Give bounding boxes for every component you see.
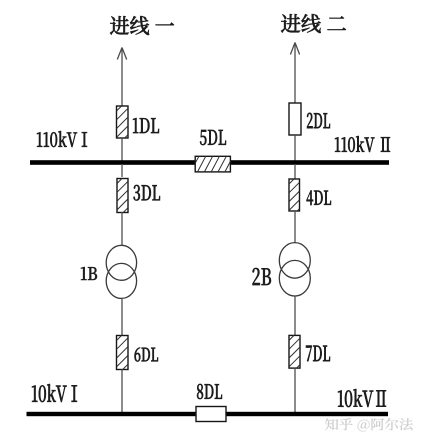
label incoming line 2 进线二: [281, 14, 346, 33]
wire: arrow to 1DL: [121, 48, 123, 107]
busbar 10kV (left segment): [27, 412, 197, 416]
label 10kV bus I: [32, 384, 77, 402]
busbar 110kV (right segment): [230, 160, 389, 165]
wire: 4DL to transformer 2B: [294, 211, 296, 243]
breaker 1DL: [117, 106, 129, 138]
wire: 2B to 7DL: [294, 296, 296, 336]
label 6DL: [135, 347, 159, 361]
breaker 5DL (bus tie): [195, 156, 230, 172]
watermark 知乎 @阿尔法: [325, 418, 413, 432]
label 110kV bus I: [37, 131, 87, 147]
wire: 2DL to 110kV bus II: [294, 135, 296, 161]
label 1B: [81, 267, 97, 280]
breaker 3DL: [117, 179, 128, 213]
label 4DL: [307, 191, 332, 206]
transformer 2B: [279, 243, 310, 296]
label 3DL: [133, 185, 160, 201]
wire: 6DL to 10kV bus I: [121, 370, 123, 414]
wire: bus I to 3DL: [121, 164, 123, 177]
label 8DL: [197, 384, 222, 399]
wire: 1B to 6DL: [121, 298, 123, 335]
wire: 7DL to 10kV bus II: [294, 368, 296, 413]
arrow incoming line 1: [117, 48, 126, 60]
busbar 10kV (right segment): [226, 412, 388, 416]
label 1DL: [133, 118, 159, 133]
breaker 8DL (bus tie): [196, 407, 226, 422]
label 5DL: [200, 130, 226, 145]
breaker 6DL: [117, 336, 129, 370]
breaker 7DL: [289, 335, 300, 368]
wire: 3DL to transformer 1B: [121, 212, 123, 246]
wire: 1DL to 110kV bus I: [121, 138, 123, 161]
transformer 1B: [106, 245, 136, 298]
label incoming line 1 进线一: [110, 16, 174, 35]
breaker 4DL: [289, 179, 300, 211]
label 110kV bus II: [335, 136, 390, 152]
breaker 2DL: [289, 103, 301, 135]
label 2DL: [307, 113, 330, 128]
arrow incoming line 2: [290, 43, 299, 55]
wire: arrow to 2DL: [294, 43, 296, 104]
label 7DL: [306, 346, 330, 361]
wire: bus II to 4DL: [294, 164, 296, 179]
label 10kV bus II: [338, 389, 386, 407]
label 2B: [253, 268, 271, 285]
busbar 110kV (left segment): [30, 160, 196, 165]
